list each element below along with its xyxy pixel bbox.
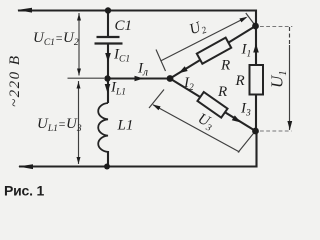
svg-text:C1: C1 [115,18,133,34]
svg-text:R: R [217,84,227,100]
svg-text:R: R [220,58,230,74]
svg-text:Рис. 1: Рис. 1 [4,183,45,198]
svg-text:~220 В: ~220 В [7,54,23,107]
svg-text:L1: L1 [117,118,134,134]
svg-text:R: R [235,73,245,89]
